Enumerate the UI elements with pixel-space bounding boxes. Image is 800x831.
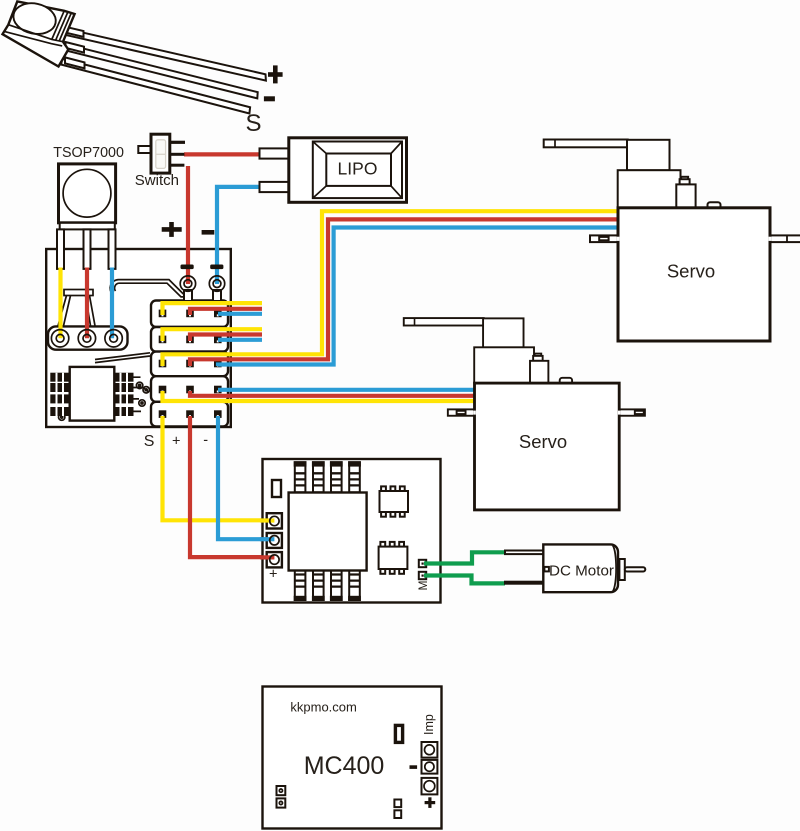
wire yellow row5 to driver — [163, 416, 276, 520]
svg-text:MC400: MC400 — [304, 752, 385, 780]
trace diagonal to header — [95, 353, 150, 363]
DC motor left tab — [544, 567, 549, 572]
DC motor body — [543, 544, 618, 592]
motor pad dots — [422, 563, 424, 577]
wire blue row1 stub — [218, 312, 262, 316]
wire blue row3 to servo1 — [218, 228, 620, 367]
MC400 pad minus — [422, 760, 438, 774]
TSOP7000 lens circle — [63, 169, 111, 217]
svg-text:+: + — [269, 567, 277, 583]
wire green motor top — [424, 552, 506, 563]
MC400 pad Imp — [422, 742, 438, 758]
driver IC pins bottom — [294, 570, 361, 601]
header row 4 — [151, 376, 228, 402]
wire yellow row2 stub — [163, 329, 263, 341]
wire red row1 stub — [190, 309, 262, 315]
pad ring 2 — [78, 330, 95, 347]
MC400 square small 1 — [394, 800, 401, 808]
MC400 pad small 1 — [277, 786, 286, 795]
wire yellow row1 stub — [163, 303, 263, 315]
motor driver board — [263, 459, 441, 603]
wire blue row4 to servo2 — [218, 388, 477, 392]
TSOP7000 receiver body — [59, 164, 116, 223]
svg-text:DC Motor: DC Motor — [549, 562, 614, 579]
LIPO battery — [260, 138, 407, 203]
header row 3 — [151, 352, 228, 377]
IR lead - — [62, 43, 258, 98]
svg-text:TSOP7000: TSOP7000 — [53, 145, 124, 161]
wire red row2 stub — [190, 335, 262, 342]
svg-text:S: S — [144, 433, 155, 450]
label - (lead) — [264, 96, 275, 101]
svg-text:kkpmo.com: kkpmo.com — [290, 700, 356, 715]
driver main IC — [289, 493, 367, 571]
header row 1 — [151, 301, 228, 328]
wire red row3 to servo1 — [190, 219, 620, 366]
motor pad M1 — [419, 560, 426, 567]
IC U1 left pins — [50, 373, 69, 416]
IR receiver 3D body — [3, 0, 75, 66]
driver pad square mid — [267, 533, 282, 548]
trace to plus pad — [110, 280, 188, 297]
svg-text:+: + — [172, 434, 180, 450]
IC U1 right pins — [114, 373, 133, 416]
wire red row4 to servo2 — [190, 391, 477, 396]
wire red leg2 to pad — [85, 268, 89, 339]
IR lead S — [61, 59, 250, 114]
wire red switch to LIPO — [184, 152, 262, 156]
MC400 board — [263, 687, 442, 829]
SOT chip 1 — [380, 486, 409, 516]
svg-text:Imp: Imp — [422, 714, 436, 735]
plus pad ring — [180, 276, 195, 291]
svg-text:-: - — [203, 432, 208, 448]
header pads grid — [159, 310, 222, 418]
label + (MC400) — [425, 797, 436, 808]
wire yellow row3 to servo1 — [163, 211, 621, 366]
MC400 pad plus — [422, 778, 438, 795]
servo 1 — [544, 140, 800, 342]
MC400 pad small 2 — [277, 798, 286, 807]
svg-text:Servo: Servo — [667, 261, 715, 282]
receiver PCB board — [46, 249, 231, 427]
wire yellow row4 to servo2 — [163, 391, 478, 401]
svg-text:S: S — [246, 110, 262, 137]
DC motor end cap — [613, 546, 616, 592]
minus pad stem — [213, 290, 221, 301]
pad ring 1 — [51, 330, 68, 347]
label - (board top) — [202, 230, 215, 235]
minus pad ring — [209, 276, 224, 291]
IR lead + — [62, 28, 266, 81]
wire blue leg3 to pad — [110, 268, 114, 339]
wire blue LIPO to minus pad — [217, 187, 262, 284]
pad lozenge — [48, 326, 128, 349]
TSOP7000 base — [60, 223, 115, 230]
wire blue row5 to driver — [218, 416, 275, 539]
header row 2 — [151, 327, 228, 352]
driver small part — [272, 480, 281, 497]
driver IC pins top — [294, 461, 361, 492]
wire blue row2 stub — [218, 338, 262, 342]
screw holes — [59, 382, 150, 420]
switch S1 — [138, 134, 185, 173]
svg-text:Servo: Servo — [519, 431, 567, 452]
DC motor end plate — [619, 559, 624, 580]
DC motor terminal bottom — [504, 581, 544, 585]
wire stubs into driver pads — [260, 518, 274, 522]
SOT chip 2 — [379, 542, 408, 574]
MC400 square small 2 — [394, 810, 401, 818]
IC U1 — [70, 367, 115, 421]
driver pad square plus — [267, 552, 282, 567]
wire red switch to plus pad — [186, 166, 190, 284]
wire red row5 to driver — [190, 416, 275, 557]
wire yellow leg1 to pad — [58, 268, 62, 339]
TSOP7000 leg 3 — [109, 229, 116, 269]
plus pad stem — [184, 290, 192, 301]
IC traces right — [134, 377, 149, 411]
label - (MC400) — [410, 765, 418, 769]
DC motor terminal top — [505, 551, 544, 555]
servo 2 — [404, 318, 645, 510]
driver pad square S — [267, 513, 282, 528]
TSOP7000 leg 2 — [84, 229, 91, 269]
svg-text:LIPO: LIPO — [338, 159, 378, 179]
label + (lead) — [268, 65, 283, 83]
header row 5 — [151, 402, 228, 427]
motor pad M2 — [419, 572, 426, 579]
label + (board top) — [162, 222, 182, 237]
driver pad rings — [270, 516, 279, 564]
svg-text:Switch: Switch — [135, 172, 179, 189]
jumper bar minus — [210, 265, 223, 270]
wire green motor bottom — [424, 576, 505, 584]
MC400 cap component — [395, 725, 402, 742]
trace table under TSOP — [58, 290, 95, 326]
jumper bar plus — [181, 265, 194, 270]
svg-text:M: M — [416, 581, 430, 591]
TSOP7000 leg 1 — [57, 229, 64, 269]
pad ring 3 — [105, 330, 122, 347]
DC motor shaft — [625, 567, 646, 571]
